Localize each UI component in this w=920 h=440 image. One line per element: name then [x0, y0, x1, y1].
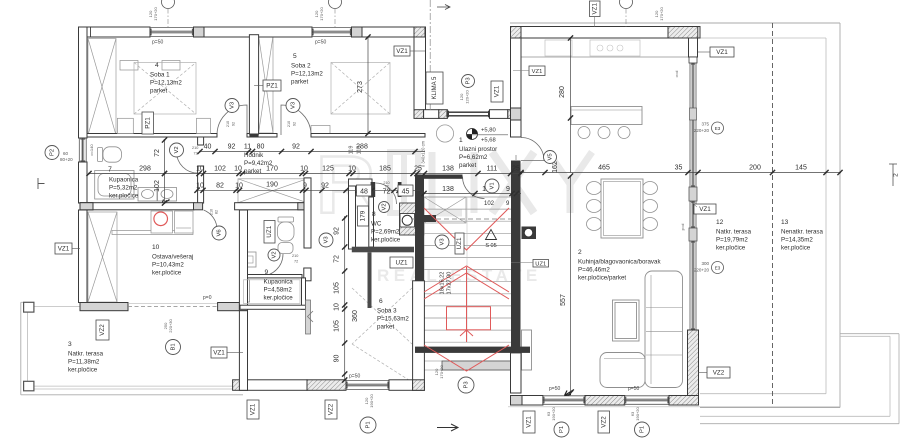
svg-text:9: 9 [506, 186, 510, 193]
svg-text:10: 10 [152, 244, 160, 251]
svg-text:Soba 3: Soba 3 [377, 308, 397, 315]
svg-text:92: 92 [228, 144, 236, 151]
svg-text:210: 210 [192, 146, 198, 150]
svg-text:Soba 2: Soba 2 [291, 63, 311, 70]
svg-text:P=12,13m2: P=12,13m2 [150, 80, 182, 87]
svg-text:P=14,35m2: P=14,35m2 [781, 237, 813, 244]
svg-text:P=12,13m2: P=12,13m2 [291, 71, 323, 78]
svg-text:V1: V1 [490, 182, 496, 189]
svg-text:P=2,69m2: P=2,69m2 [371, 229, 400, 236]
svg-text:80: 80 [257, 144, 265, 151]
svg-text:190+20: 190+20 [369, 394, 374, 408]
svg-text:P=15,63m2: P=15,63m2 [377, 316, 409, 323]
svg-text:PZ1: PZ1 [266, 83, 278, 90]
svg-text:10: 10 [334, 303, 341, 311]
svg-text:210: 210 [292, 254, 298, 258]
svg-text:parket: parket [244, 168, 261, 175]
svg-text:WC: WC [371, 221, 382, 228]
svg-text:92: 92 [293, 122, 297, 126]
svg-text:VZ2: VZ2 [600, 416, 607, 428]
svg-text:102: 102 [214, 166, 226, 173]
svg-text:parket: parket [291, 79, 308, 86]
svg-text:80+20: 80+20 [60, 157, 73, 162]
svg-text:220+30: 220+30 [168, 319, 173, 333]
svg-text:P=6,62m2: P=6,62m2 [459, 154, 488, 161]
svg-text:220+20: 220+20 [694, 128, 710, 133]
svg-text:P=9,42m2: P=9,42m2 [244, 160, 273, 167]
svg-text:72: 72 [334, 255, 341, 263]
svg-text:p=50: p=50 [349, 374, 360, 380]
svg-text:119: 119 [357, 146, 363, 155]
svg-text:92: 92 [292, 144, 300, 151]
svg-text:72: 72 [294, 260, 298, 264]
svg-text:72: 72 [384, 185, 388, 189]
svg-text:p=50: p=50 [152, 40, 163, 46]
svg-text:Soba 1: Soba 1 [150, 72, 170, 79]
svg-text:10: 10 [235, 183, 243, 190]
svg-text:9: 9 [303, 183, 307, 190]
svg-text:Kupaonica: Kupaonica [264, 279, 294, 286]
svg-text:parket: parket [377, 324, 394, 331]
svg-text:p=d: p=d [680, 224, 685, 231]
svg-text:12: 12 [716, 219, 724, 226]
svg-text:P1: P1 [559, 426, 565, 433]
svg-text:+5,68: +5,68 [481, 138, 496, 144]
svg-text:Ostava/vešeraj: Ostava/vešeraj [152, 254, 193, 261]
svg-text:557: 557 [560, 294, 567, 306]
svg-text:p=50: p=50 [549, 386, 560, 392]
svg-text:P1: P1 [366, 421, 372, 428]
svg-text:40: 40 [204, 144, 212, 151]
svg-text:VZ2: VZ2 [99, 324, 106, 336]
svg-text:9: 9 [265, 269, 269, 276]
svg-text:120: 120 [459, 93, 464, 100]
svg-text:220+20: 220+20 [694, 268, 710, 273]
svg-text:10: 10 [234, 166, 242, 173]
svg-text:210: 210 [287, 121, 291, 127]
svg-text:102: 102 [484, 201, 495, 207]
svg-text:25: 25 [512, 166, 520, 173]
svg-text:125: 125 [322, 166, 334, 173]
svg-text:280: 280 [559, 86, 566, 98]
svg-text:Kuhinja/blagovaonica/boravak: Kuhinja/blagovaonica/boravak [578, 259, 661, 266]
svg-text:Hodnik: Hodnik [244, 152, 264, 159]
svg-text:72: 72 [194, 152, 198, 156]
svg-text:ker.pločice: ker.pločice [264, 295, 294, 302]
svg-text:6: 6 [379, 298, 383, 305]
svg-text:273: 273 [357, 81, 364, 93]
svg-text:V3: V3 [291, 102, 297, 109]
svg-text:210: 210 [210, 209, 214, 215]
svg-text:111: 111 [487, 166, 498, 173]
svg-text:Ulazni prostor: Ulazni prostor [459, 146, 497, 153]
svg-text:10: 10 [348, 166, 356, 173]
svg-text:ker.pločice: ker.pločice [371, 237, 401, 244]
svg-text:ker.pločice: ker.pločice [152, 270, 182, 277]
svg-text:+5,80: +5,80 [481, 128, 496, 134]
svg-text:35: 35 [675, 165, 683, 172]
svg-text:170+20: 170+20 [659, 7, 664, 21]
svg-text:3: 3 [68, 341, 72, 348]
svg-text:VZ1: VZ1 [494, 85, 501, 97]
svg-text:UZ1: UZ1 [396, 260, 408, 267]
svg-text:V3: V3 [324, 236, 330, 243]
svg-text:parket: parket [459, 162, 476, 169]
svg-text:298: 298 [139, 166, 151, 173]
svg-text:210: 210 [226, 121, 230, 127]
svg-text:105: 105 [334, 282, 341, 294]
svg-text:ker.pločice: ker.pločice [781, 245, 811, 252]
svg-text:P=10,43m2: P=10,43m2 [152, 262, 184, 269]
svg-text:92: 92 [232, 122, 236, 126]
svg-text:Natkr. terasa: Natkr. terasa [716, 229, 752, 236]
svg-text:17x27,00: 17x27,00 [447, 272, 453, 295]
svg-text:48: 48 [360, 189, 368, 196]
svg-text:VZ1: VZ1 [396, 48, 408, 55]
svg-text:465: 465 [598, 165, 610, 172]
svg-text:45: 45 [402, 189, 410, 196]
svg-text:p=50: p=50 [628, 386, 639, 392]
svg-text:V5: V5 [548, 153, 554, 160]
svg-text:VZ1: VZ1 [699, 206, 711, 213]
svg-text:10: 10 [196, 166, 204, 173]
svg-text:190+20: 190+20 [551, 407, 556, 421]
svg-text:92: 92 [321, 183, 329, 190]
svg-text:UZ1: UZ1 [535, 261, 546, 267]
svg-text:VZ1: VZ1 [532, 69, 543, 75]
svg-text:82: 82 [216, 183, 224, 190]
svg-text:P=4,58m2: P=4,58m2 [264, 287, 293, 294]
svg-text:72: 72 [154, 149, 161, 157]
svg-text:190: 190 [266, 182, 278, 189]
svg-text:119: 119 [349, 146, 355, 155]
svg-text:92: 92 [334, 227, 341, 235]
svg-text:VZ2: VZ2 [713, 370, 725, 377]
svg-text:ker.pločice/parket: ker.pločice/parket [578, 275, 626, 282]
svg-text:170+20: 170+20 [319, 7, 324, 21]
svg-text:8: 8 [372, 211, 376, 218]
svg-text:VZ2: VZ2 [328, 403, 335, 415]
svg-text:185: 185 [379, 166, 391, 173]
svg-text:ker.pločice: ker.pločice [716, 245, 746, 252]
svg-text:KLIMA 5: KLIMA 5 [432, 76, 438, 99]
svg-text:90: 90 [334, 355, 341, 363]
svg-text:P=19,79m2: P=19,79m2 [716, 237, 748, 244]
svg-text:VZ1: VZ1 [591, 2, 598, 14]
svg-text:Natkr. terasa: Natkr. terasa [68, 351, 104, 358]
svg-text:VZ1: VZ1 [250, 403, 257, 415]
svg-text:V2: V2 [272, 251, 278, 258]
svg-text:o=d: o=d [674, 71, 679, 78]
svg-text:82: 82 [215, 210, 219, 214]
svg-text:P3: P3 [464, 381, 470, 388]
svg-text:V3: V3 [230, 102, 236, 109]
svg-text:11: 11 [244, 144, 251, 151]
svg-text:P1: P1 [640, 426, 646, 433]
svg-text:360: 360 [352, 310, 359, 322]
svg-text:13: 13 [781, 219, 789, 226]
svg-text:P2: P2 [50, 149, 56, 156]
svg-text:Nenatkr. terasa: Nenatkr. terasa [781, 229, 824, 236]
svg-text:300: 300 [701, 261, 709, 266]
svg-text:PZ1: PZ1 [144, 117, 151, 129]
svg-text:72: 72 [383, 189, 391, 196]
svg-text:ker.pločice: ker.pločice [109, 193, 139, 200]
svg-text:V6: V6 [217, 229, 223, 236]
svg-text:0 340x120 cm: 0 340x120 cm [421, 140, 426, 167]
svg-text:V2: V2 [382, 203, 388, 210]
svg-text:E3: E3 [715, 266, 721, 271]
svg-text:P=46,46m2: P=46,46m2 [578, 267, 610, 274]
svg-text:4: 4 [155, 62, 159, 69]
svg-text:o=140: o=140 [89, 144, 94, 156]
svg-text:V2: V2 [174, 146, 180, 153]
svg-text:P=11,38m2: P=11,38m2 [68, 359, 100, 366]
svg-text:10: 10 [196, 183, 204, 190]
svg-text:120+20: 120+20 [465, 90, 470, 104]
svg-text:Kupaonica: Kupaonica [109, 177, 139, 184]
svg-text:60: 60 [63, 151, 69, 156]
svg-text:V3: V3 [440, 238, 446, 245]
svg-text:7: 7 [108, 167, 112, 174]
svg-text:VZ1: VZ1 [213, 350, 225, 357]
svg-text:B1: B1 [171, 343, 177, 350]
svg-text:138: 138 [442, 186, 454, 193]
svg-text:105: 105 [334, 320, 341, 332]
svg-text:138: 138 [442, 166, 454, 173]
svg-text:S 05: S 05 [485, 243, 496, 249]
svg-text:190+20: 190+20 [635, 407, 640, 421]
svg-text:145: 145 [795, 165, 807, 172]
svg-text:1: 1 [459, 137, 463, 144]
svg-text:p=0: p=0 [203, 295, 212, 301]
svg-text:102: 102 [154, 180, 161, 192]
svg-text:ker.pločice: ker.pločice [68, 367, 98, 374]
svg-text:5: 5 [293, 53, 297, 60]
svg-text:375: 375 [701, 122, 709, 127]
svg-text:200: 200 [749, 165, 761, 172]
svg-text:170+20: 170+20 [153, 7, 158, 21]
svg-text:E3: E3 [715, 126, 721, 131]
svg-text:P3: P3 [466, 77, 472, 84]
svg-text:10: 10 [300, 166, 308, 173]
svg-text:UZ1: UZ1 [456, 237, 463, 249]
svg-text:18x16,22: 18x16,22 [440, 272, 446, 295]
svg-text:VZ1: VZ1 [526, 416, 533, 428]
svg-text:VZ1: VZ1 [716, 49, 728, 56]
svg-text:2: 2 [578, 249, 582, 256]
svg-text:p=50: p=50 [315, 40, 326, 46]
svg-text:parket: parket [150, 88, 167, 95]
svg-text:P=5,32m2: P=5,32m2 [109, 185, 138, 192]
svg-text:VZ1: VZ1 [58, 246, 70, 253]
svg-text:UZ1: UZ1 [266, 225, 273, 237]
svg-text:2: 2 [893, 173, 900, 177]
svg-text:170+20: 170+20 [439, 365, 444, 379]
svg-text:179: 179 [360, 210, 367, 221]
